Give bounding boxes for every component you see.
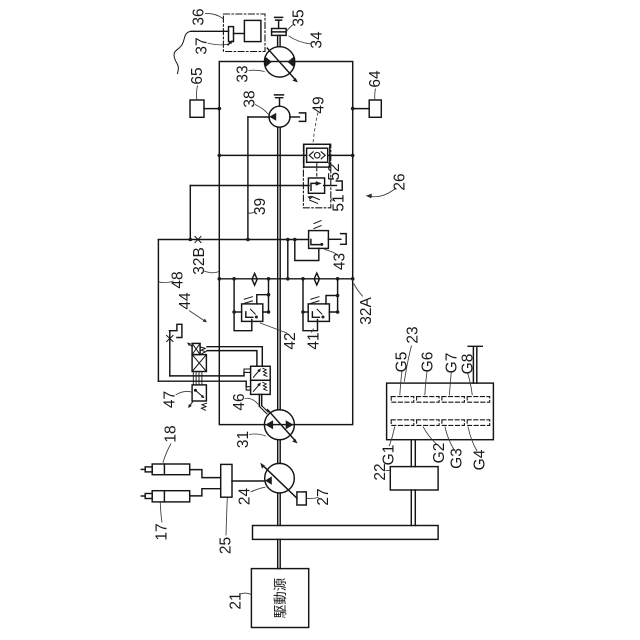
wire: valve 43 right port to tank <box>328 238 340 240</box>
wire: 37 to 36a <box>234 33 245 35</box>
svg-text:32B: 32B <box>191 247 208 275</box>
manifold 25 <box>221 464 232 497</box>
svg-text:17: 17 <box>154 523 171 540</box>
wire: pump 38 left port <box>248 116 269 118</box>
servo piston 34 <box>272 29 287 36</box>
gear G1 <box>391 420 414 426</box>
wire: vertical link node39 to gallery <box>287 240 289 279</box>
gear G2 <box>417 420 440 426</box>
svg-text:25: 25 <box>218 537 235 554</box>
directional valve 47 top position box <box>192 343 200 354</box>
wire: accumulator 65 connection <box>204 108 219 110</box>
shaft: pump 22 to transfer bar <box>411 490 415 526</box>
wire: relief 42 pilot step <box>257 295 269 304</box>
directional valve 47 bottom position box <box>192 385 206 401</box>
gear G5 <box>391 397 414 403</box>
wire: cylinder 18 to manifold 25 <box>190 470 221 478</box>
gear G7 <box>442 397 465 403</box>
pilot arrow at valve 47 bottom <box>190 402 193 406</box>
controller box 36 (dash-dot enclosure) <box>223 14 265 52</box>
svg-text:22: 22 <box>372 463 389 480</box>
tank symbol at valve 43 <box>341 234 347 245</box>
valve 46 upper left port stub <box>244 369 251 372</box>
wire: plug 44 line to valve 46 route C <box>170 372 244 376</box>
svg-text:36: 36 <box>191 8 208 25</box>
wire: 32B bottom edge route D to valve 46 <box>158 381 246 387</box>
sensor box 27 <box>297 492 306 505</box>
svg-text:49: 49 <box>311 96 328 113</box>
spring of valve 51 <box>310 196 320 203</box>
shaft: pump 38 down to pump 31 <box>278 127 281 410</box>
wire: relief 41 right branch <box>329 279 337 312</box>
pump 33 (variable HST pump) <box>264 47 294 77</box>
solenoid 37 <box>229 27 234 42</box>
svg-text:18: 18 <box>163 425 180 442</box>
wire: relief 42 left port <box>234 311 242 313</box>
drain symbol above pump 38 <box>275 95 284 106</box>
svg-text:駆動源: 駆動源 <box>273 577 288 618</box>
svg-text:39: 39 <box>252 198 269 215</box>
gear G4 <box>467 420 490 426</box>
gear G8 <box>467 397 490 403</box>
directional valve 47 middle position box <box>192 355 206 372</box>
regulator valve 46 lower section <box>251 380 271 394</box>
pump 31 (variable pump) <box>264 410 294 440</box>
svg-text:27: 27 <box>315 488 332 505</box>
svg-text:64: 64 <box>367 70 384 88</box>
pilot arrow at valve 47 top <box>189 344 192 347</box>
accumulator 65 <box>190 100 204 117</box>
shaft: gearbox 23 to pump 22 <box>411 440 415 467</box>
spring right of valve 47 top box <box>201 347 206 354</box>
shaft: transfer bar to drive source 21 <box>278 539 281 568</box>
flow control valve 52 <box>304 144 330 167</box>
svg-text:46: 46 <box>231 393 248 410</box>
wire: valve 51 right port to tank <box>324 185 337 187</box>
wire: valve 51 line at y=185.5 <box>190 185 309 187</box>
pump 24 (steering pump) <box>265 463 295 493</box>
drive source box 21 <box>251 569 308 628</box>
svg-text:41: 41 <box>306 332 323 349</box>
swash link valve 46 to pump 31 <box>259 394 261 406</box>
wire: vertical from valve 51 line to node 39 <box>189 186 191 240</box>
svg-text:G2: G2 <box>431 443 448 464</box>
svg-text:48: 48 <box>170 271 187 288</box>
svg-text:G7: G7 <box>444 353 461 374</box>
gear G3 <box>442 420 465 426</box>
tank symbol at valve 51 <box>336 181 342 190</box>
pilot unit 49 (dash-dot enclosure) <box>303 144 330 208</box>
wire: relief 41 left port <box>303 311 308 313</box>
spring of valve 43 <box>314 221 321 229</box>
svg-text:33: 33 <box>235 65 252 82</box>
regulator valve 43 <box>309 231 329 249</box>
check valve 41a <box>314 273 319 285</box>
wire: valve 52 to right edge <box>328 154 353 156</box>
svg-text:G5: G5 <box>394 352 411 373</box>
svg-text:47: 47 <box>162 391 179 408</box>
arrowhead of 26 pointer <box>366 194 372 199</box>
wire: cylinder 17 to manifold 25 <box>190 489 221 496</box>
wire: pump 38 outlet vertical (line 39) <box>247 117 249 240</box>
reference labels <box>154 8 489 618</box>
wire: relief 42 right branch <box>263 279 269 312</box>
svg-text:G3: G3 <box>449 448 466 469</box>
svg-text:43: 43 <box>332 253 349 270</box>
svg-text:G6: G6 <box>420 352 437 373</box>
junction dots <box>189 107 355 314</box>
pump 38 (charge pump) <box>269 106 290 127</box>
gear G6 <box>417 397 440 403</box>
wire: common gallery line at y=278.8 <box>219 278 352 280</box>
svg-text:23: 23 <box>405 326 422 343</box>
spring at valve 47 bottom right <box>201 403 206 410</box>
svg-text:37: 37 <box>194 37 211 54</box>
accumulator 64 <box>369 100 381 117</box>
wire: node line 39 horizontal (top edge of 32B through to valve 43) <box>158 239 308 241</box>
wire: relief 42 left branch <box>234 279 252 331</box>
pump box 22 <box>390 467 438 490</box>
wire: signal line into 37 with break squiggle <box>191 30 228 32</box>
servo rod and stop 35 <box>275 17 283 28</box>
circuit block 32A outline <box>219 62 352 425</box>
wire: valve 43 feedback loop <box>295 240 319 261</box>
valve 47 proportional ticks <box>193 373 202 385</box>
valve 46 lower left port stub <box>246 387 250 390</box>
tank symbol at pump 38 <box>299 113 305 122</box>
wire: accumulator 64 connection <box>353 108 370 110</box>
circuit block 32B outline left edge <box>157 240 159 382</box>
cylinder 18 <box>152 464 190 475</box>
transfer bar <box>253 526 439 540</box>
shaft: servo 34 to pump 33 <box>278 35 281 46</box>
wire: valve 47 to valve 46 upper route A <box>207 347 262 367</box>
regulator valve 51 <box>308 178 324 193</box>
svg-text:G8: G8 <box>460 354 477 375</box>
svg-text:G1: G1 <box>381 445 398 466</box>
shaft: pump 24 to transfer bar <box>278 493 281 526</box>
svg-text:35: 35 <box>291 9 308 26</box>
svg-text:34: 34 <box>309 31 326 49</box>
svg-text:52: 52 <box>326 163 343 180</box>
wire: relief 41 pilot step <box>326 296 338 304</box>
arrow into solenoid 37 <box>228 42 232 45</box>
svg-text:65: 65 <box>189 67 206 84</box>
regulator valve 46 upper section <box>251 366 271 380</box>
svg-text:32A: 32A <box>358 297 375 325</box>
terminal cross on node 39 <box>195 236 201 242</box>
svg-text:42: 42 <box>282 332 299 349</box>
svg-text:G4: G4 <box>472 449 489 470</box>
cylinder 17 <box>152 491 190 502</box>
wire: relief 41 left branch <box>303 279 318 331</box>
closed port cross on plug 44 line <box>167 336 173 342</box>
check valve 42a <box>252 273 257 285</box>
wire: manifold 25 to pump 24 <box>232 480 265 482</box>
svg-text:24: 24 <box>237 488 254 506</box>
svg-text:21: 21 <box>228 592 245 609</box>
label leader lines <box>159 13 477 594</box>
pilot dashes 52 to 51 <box>316 164 318 178</box>
actuator block 36a <box>244 20 261 41</box>
arrowhead of 44 pointer <box>203 319 207 323</box>
shaft stub above gearbox 23 <box>468 346 482 383</box>
relief valve 42 <box>242 304 263 322</box>
svg-text:31: 31 <box>235 431 252 448</box>
wire: valve 47 to valve 46 upper route B <box>207 351 257 367</box>
wire: valve 52 supply line <box>219 154 306 156</box>
svg-text:51: 51 <box>331 194 348 211</box>
wire: pump 38 right port to tank <box>290 116 300 118</box>
gearbox 23 <box>387 383 494 440</box>
svg-text:38: 38 <box>242 90 259 107</box>
plug 44 hook symbol <box>169 324 182 337</box>
wire: plug 44 vertical <box>169 331 171 376</box>
svg-text:44: 44 <box>177 292 194 310</box>
shaft: pump 31 to pump 24 <box>278 440 281 464</box>
svg-text:26: 26 <box>392 173 409 190</box>
relief valve 41 <box>308 304 329 322</box>
